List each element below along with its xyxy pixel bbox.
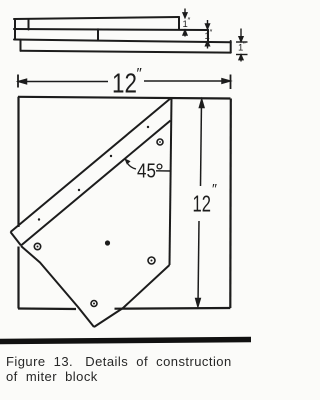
svg-text:″: ″: [243, 41, 246, 50]
svg-text:12: 12: [193, 192, 211, 217]
svg-text:12: 12: [112, 68, 137, 99]
side view: top board right edge: [178, 17, 180, 30]
side view: joint in top board: [28, 19, 30, 30]
side view: joint in middle board: [97, 29, 99, 40]
horizontal 12-inch dimension: [18, 75, 231, 90]
plan square: bottom edge (left part): [18, 307, 76, 310]
fence upper edge: [11, 98, 172, 232]
dimension 1-inch A (top board thickness): [183, 9, 187, 37]
45 leader arrow: [126, 162, 136, 170]
screw hole left: [34, 139, 163, 307]
dimension 1-inch B (middle board thickness): [206, 20, 210, 49]
dimension 1-inch C (bottom board thickness): [236, 29, 248, 62]
plan square: top edge: [18, 97, 231, 309]
fence board (45 deg strip): [11, 98, 172, 246]
pentagon lower-right edge: [94, 265, 170, 327]
screw hole top right: [157, 139, 163, 145]
side view: boundary top/middle board: [14, 29, 208, 30]
thick separator bar: [0, 337, 251, 344]
nail dot 2: [78, 189, 80, 191]
degree underline dash to right: [156, 170, 171, 172]
fence left end cut: [11, 232, 22, 246]
caption: [6, 355, 251, 384]
side view: middle board right edge: [207, 30, 209, 42]
fence lower edge: [21, 121, 171, 246]
plan square: bottom edge (right part): [115, 307, 231, 310]
svg-text:″: ″: [210, 29, 213, 38]
pentagon lower-left edge: [21, 246, 94, 327]
vertical 12-inch dimension: [196, 100, 204, 307]
screw hole bottom: [91, 301, 97, 307]
screw hole mid right: [148, 257, 155, 264]
side view: bottom board right edge: [230, 41, 232, 53]
plan square: left edge (lower part): [17, 247, 19, 309]
side view: boundary middle/bottom board: [14, 40, 231, 43]
nail dot 4: [147, 126, 149, 128]
degree circle: [157, 164, 162, 169]
nail dot 3: [110, 155, 112, 157]
plan square: left edge (upper part): [17, 97, 19, 227]
side view: bottom board bottom edge: [21, 51, 231, 53]
bottom piece (pentagon): vertical right edge: [21, 98, 172, 327]
svg-text:″: ″: [212, 181, 217, 197]
side view: left edge of top+middle boards: [14, 19, 16, 40]
svg-text:″: ″: [137, 65, 143, 82]
side view: bottom board left edge: [20, 40, 22, 51]
svg-text:″: ″: [188, 17, 191, 26]
side view: top board top edge: [14, 17, 179, 19]
svg-text:45: 45: [137, 159, 156, 182]
screw hole center (dark): [105, 240, 110, 245]
nail dot 1: [38, 218, 40, 220]
plan square: right edge: [229, 99, 232, 309]
